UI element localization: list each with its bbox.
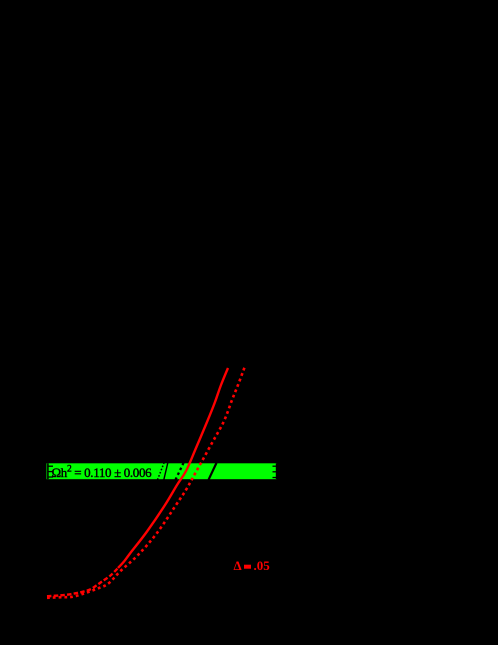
- svg-text:Ωh2 = 0.110 ± 0.006: Ωh2 = 0.110 ± 0.006: [52, 465, 153, 481]
- svg-text:Δ: Δ: [234, 558, 242, 573]
- svg-text:.05: .05: [254, 558, 271, 573]
